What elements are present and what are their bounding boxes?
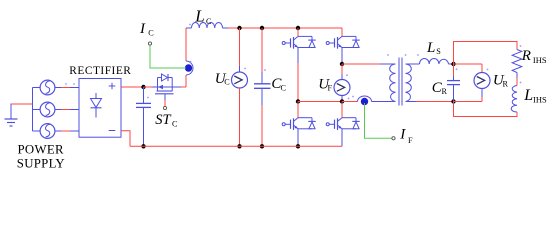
svg-text:IHS: IHS: [533, 94, 547, 104]
terminal I_F: [392, 137, 395, 140]
voltmeter U_C: [232, 28, 248, 146]
transformer TR core: [399, 58, 402, 106]
label U_F: [318, 76, 332, 92]
wire V2 to rectifier: [55, 109, 79, 111]
wire top rail: [228, 27, 342, 29]
label L_IHS: [523, 87, 547, 104]
current sensor loop (I_F): [352, 96, 371, 106]
transformer TR primary winding: [390, 64, 396, 102]
svg-text:C: C: [224, 78, 230, 87]
wire Q2 emitter to node T: [341, 48, 343, 65]
wire Q4 emitter to bottom rail: [341, 129, 343, 147]
inductor L_S: [420, 58, 454, 64]
wire rectifier + output: [121, 86, 144, 88]
wire R_IHS to L_IHS: [516, 73, 518, 86]
inductor L_C: [186, 23, 228, 29]
svg-text:C: C: [172, 120, 178, 129]
label I_F: [399, 127, 413, 146]
AC source V2: [33, 102, 55, 117]
wire supply bus: [32, 88, 34, 132]
wire node B to sensor: [342, 101, 358, 103]
wire sensor up to L_C: [185, 28, 187, 61]
capacitor C0 (dc filter): [136, 87, 151, 146]
node B2 junction: [451, 99, 455, 103]
transistor Q3 (IGBT bottom-left): [282, 118, 316, 130]
wire green I_F probe: [365, 103, 392, 138]
svg-text:C: C: [148, 29, 154, 38]
wire ground to supply bus: [11, 103, 33, 105]
voltmeter U_F: [334, 64, 350, 102]
svg-text:ST: ST: [155, 112, 171, 128]
label POWER SUPPLY: [17, 143, 65, 171]
label I_C: [139, 21, 154, 38]
label C_C: [271, 76, 286, 93]
wire secondary bottom to node B2: [406, 101, 454, 103]
transistor Q4 (IGBT bottom-right): [326, 118, 360, 130]
rectifier box U0: [79, 79, 121, 138]
voltmeter U_R: [454, 64, 491, 102]
wire ST_C to sensor (vertical): [185, 75, 187, 87]
wire Q3 top lead: [297, 102, 299, 118]
svg-text:C: C: [206, 17, 212, 26]
node A junction (left leg mid): [296, 99, 300, 103]
svg-text:I: I: [139, 21, 146, 37]
node bottom rail / C_C: [260, 144, 264, 148]
capacitor C_C: [254, 28, 271, 146]
terminal I_C: [148, 42, 151, 45]
AC source V1: [33, 80, 55, 95]
current sensor loop (I_C): [185, 61, 193, 75]
wire node T to transformer primary top: [342, 63, 396, 65]
node bottom rail / Q3: [296, 144, 300, 148]
node top rail / U_C: [237, 26, 241, 30]
svg-text:IHS: IHS: [533, 55, 547, 65]
label L_C: [194, 7, 212, 27]
label U_R: [493, 72, 509, 88]
node T junction: [340, 62, 344, 66]
wire Q2 top lead (rail corner): [341, 28, 343, 36]
capacitor C_R: [447, 64, 460, 102]
node bottom rail / U_C: [237, 144, 241, 148]
wire secondary top to L_S: [406, 63, 420, 65]
node top rail / C_C: [260, 26, 264, 30]
label R_IHS: [521, 48, 547, 65]
node DC+ junction: [141, 85, 145, 89]
svg-text:R: R: [442, 87, 448, 96]
wire green I_C probe: [150, 45, 186, 68]
svg-text:C: C: [281, 84, 287, 93]
wire L_IHS to bottom loop: [454, 102, 518, 117]
svg-text:I: I: [399, 127, 406, 143]
svg-text:F: F: [408, 136, 413, 145]
wire Q4 top lead: [341, 102, 343, 118]
svg-text:SUPPLY: SUPPLY: [17, 156, 65, 170]
svg-text:POWER: POWER: [18, 143, 64, 157]
node B junction (U_F bottom): [340, 99, 344, 103]
svg-text:R: R: [503, 80, 509, 89]
svg-text:L: L: [523, 87, 533, 104]
svg-text:RECTIFIER: RECTIFIER: [69, 65, 131, 77]
wire mid rail node A to node B: [298, 101, 342, 103]
resistor R_IHS: [512, 45, 522, 72]
wire sensor to transformer primary bottom: [372, 101, 396, 103]
wire Q1 top lead: [297, 28, 299, 36]
svg-text:R: R: [521, 48, 531, 64]
label L_S: [426, 40, 441, 56]
wire V3 to rectifier: [55, 130, 79, 132]
node T2 junction: [451, 62, 455, 66]
wire Q1 emitter to node A: [297, 48, 299, 102]
svg-text:L: L: [194, 7, 204, 26]
inductor L_IHS: [511, 82, 521, 112]
svg-text:S: S: [436, 47, 441, 56]
wire Q3 emitter to bottom rail: [297, 129, 299, 147]
transistor Q1 (IGBT top-left): [282, 36, 316, 48]
node on bottom rail at C0: [141, 144, 145, 148]
label C_R: [432, 80, 448, 96]
transistor Q2 (IGBT top-right): [326, 36, 360, 48]
node top rail / Q1: [296, 26, 300, 30]
ground: [5, 104, 18, 127]
wire V1 to rectifier: [55, 83, 79, 87]
wire node T2 up and across to R_IHS: [454, 42, 518, 65]
svg-text:F: F: [328, 83, 333, 92]
label ST_C: [155, 112, 178, 129]
transformer TR secondary winding: [387, 54, 419, 101]
transistor ST_C (MOSFET with diode): [144, 74, 187, 110]
wire rectifier - output: [121, 131, 130, 147]
wire bottom rail: [130, 145, 342, 147]
label U_C: [215, 71, 231, 87]
svg-text:L: L: [426, 40, 435, 56]
AC source V3: [33, 124, 55, 139]
